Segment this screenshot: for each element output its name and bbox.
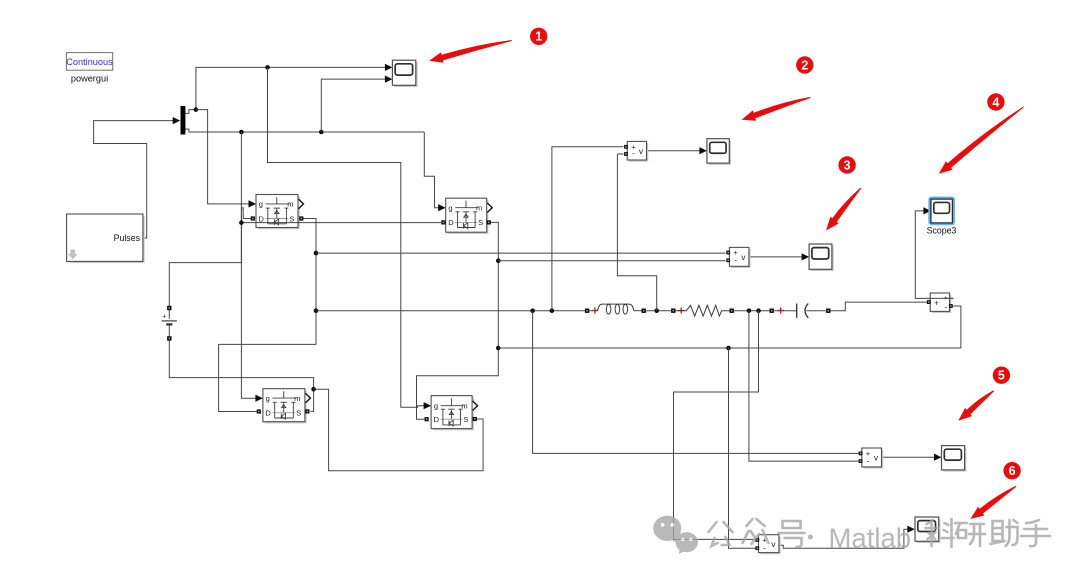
wire VM3 output to Scope3: [915, 211, 953, 299]
svg-text:-: -: [867, 455, 870, 465]
node pulse2 junction for MOSFET3 gate: [239, 130, 244, 135]
svg-text:3: 3: [844, 158, 851, 172]
watermark text 手: [1021, 520, 1050, 546]
voltage measurement VM5: [760, 536, 780, 554]
svg-text:S: S: [478, 218, 483, 227]
watermark text 公: [709, 522, 733, 546]
watermark text 号: [779, 521, 805, 547]
wire VM1 minus to inductor output: [617, 154, 656, 311]
wire Demux out1 stub: [185, 110, 196, 114]
node B tap to VM2 minus: [496, 259, 501, 264]
watermark text 科: [926, 519, 954, 547]
port M4 source: [473, 417, 477, 421]
svg-text:D: D: [265, 409, 271, 418]
wire VM5 plus from load tap: [674, 311, 759, 540]
svg-text:D: D: [258, 214, 264, 223]
wire VM3 output over block: [930, 297, 953, 299]
resistor R ports: [671, 309, 675, 313]
svg-text:-: -: [632, 148, 635, 158]
wire arrow into Scope1: [699, 147, 707, 154]
wire arrow into Scope6: [907, 526, 915, 533]
node pulse2 junction to scope: [319, 130, 324, 135]
wire pulse2 up to Scope bottom input: [321, 79, 391, 132]
node B tap to return rail: [496, 346, 501, 351]
watermark text 助: [991, 520, 1018, 546]
wire node B rail to VM2 minus: [498, 260, 725, 262]
svg-text:D: D: [448, 218, 454, 227]
mosfet M4 bottom-right: [433, 397, 474, 430]
svg-text:Continuous: Continuous: [66, 57, 113, 67]
svg-text:1: 1: [535, 30, 542, 44]
watermark wechat icon: [653, 516, 698, 554]
annotation arrow 1: [429, 40, 512, 63]
wire load rail segment A to inductor: [316, 310, 585, 312]
svg-text:Scope3: Scope3: [927, 226, 957, 236]
port M4 drain: [425, 417, 429, 421]
node pulse1 junction on top wire: [265, 65, 270, 70]
svg-text:4: 4: [992, 95, 999, 109]
inductor L coil: [589, 310, 597, 312]
label R plus: [678, 307, 684, 313]
svg-text:D: D: [434, 415, 440, 424]
annotation arrow 2: [742, 97, 811, 121]
annotation circle 3: [838, 156, 855, 173]
mosfet M1 top-left: [258, 196, 300, 229]
wire VM1 output to Scope1: [647, 150, 706, 152]
watermark text 研: [955, 523, 985, 546]
wire VM1 plus down to node A rail: [552, 147, 624, 311]
wire VM2 output to Scope2: [749, 256, 808, 258]
wire arrow into Scope3: [923, 207, 931, 214]
wire junction arrow into Demux: [173, 117, 181, 124]
svg-text:g: g: [448, 204, 452, 213]
annotation arrow 5: [958, 390, 994, 420]
port M1 drain: [251, 216, 255, 220]
annotation arrow 3: [826, 188, 861, 231]
node load rail tap VM4 minus: [756, 308, 761, 313]
node pulse1 junction at demux out1: [194, 107, 199, 112]
port M1 source: [299, 216, 303, 220]
capacitor C ports: [770, 309, 774, 313]
wire pulse1 up to Scope top input: [196, 67, 391, 109]
wire arrow into Scope5: [934, 454, 942, 461]
wire VM4 minus from load tap: [749, 311, 860, 461]
svg-text:6: 6: [1009, 464, 1016, 478]
wire arrow into Scope2: [802, 253, 810, 260]
svg-text:v: v: [741, 252, 746, 262]
port M2 drain: [441, 220, 445, 224]
node A tap to load rail: [314, 308, 319, 313]
node load rail tap VM1 minus: [654, 308, 659, 313]
wire Demux out2 stub: [185, 129, 424, 132]
wire pulse1 branch to MOSFET4 gate: [268, 67, 430, 407]
wire pulse1 branch to MOSFET1 gate: [196, 110, 255, 204]
annotation circle 1: [530, 28, 547, 45]
node load rail tap VM1 plus: [550, 308, 555, 313]
wire MOSFET2 source down: [417, 222, 499, 419]
wire arrow into Scope in1: [385, 64, 393, 71]
wire VM5 output to Scope6: [779, 529, 914, 548]
svg-text:5: 5: [998, 369, 1005, 383]
wire pulse2 down to MOSFET3 gate: [241, 132, 261, 398]
annotation arrow 6: [970, 486, 1016, 519]
port M3 source: [305, 409, 309, 413]
wire resistor to capacitor segment: [734, 310, 770, 312]
wire MOSFET1 source to node A: [219, 219, 316, 412]
node return rail tap VM5 minus: [726, 346, 731, 351]
wire VM4 output to Scope5: [882, 456, 941, 458]
wire Pulses output to Demux input: [94, 121, 174, 238]
wire battery plus up to DC rail: [169, 208, 250, 306]
wire arrow into Scope in2: [385, 76, 393, 83]
svg-text:S: S: [296, 409, 301, 418]
port M3 drain: [257, 409, 261, 413]
wire VM4 plus from node A: [533, 311, 860, 454]
wire battery minus to MOSFET3 source: [169, 340, 313, 411]
capacitor C plates: [774, 310, 797, 312]
annotation circle 6: [1003, 462, 1020, 479]
wire VM3 minus down to return rail: [951, 306, 961, 348]
wire DC positive rail to MOSFET2 drain: [241, 222, 441, 224]
wire node A rail to VM2 plus: [316, 252, 726, 254]
svg-text:S: S: [289, 214, 294, 223]
svg-text:g: g: [434, 402, 438, 411]
svg-text:-: -: [763, 542, 766, 552]
svg-text:g: g: [259, 200, 263, 209]
label C plus: [778, 307, 784, 313]
svg-text:-: -: [944, 301, 947, 311]
node negative rail junction: [311, 387, 316, 392]
wire return rail: [498, 347, 961, 349]
scope Scope3 selected: [928, 197, 955, 226]
svg-text:powergui: powergui: [71, 74, 108, 84]
label L plus: [592, 307, 598, 313]
wire pulse2 to MOSFET2 gate: [424, 132, 444, 208]
voltage measurement VM1: [629, 143, 648, 162]
watermark text 众: [743, 519, 769, 544]
inductor L ports: [585, 309, 589, 313]
watermark middle dot: [808, 535, 813, 540]
scope Scope6: [917, 519, 941, 543]
scope Scope1 (inductor voltage): [709, 140, 731, 164]
voltage measurement VM2: [731, 249, 751, 268]
annotation circle 5: [993, 367, 1010, 384]
annotation circle 2: [796, 56, 813, 73]
node DC rail junction: [239, 220, 244, 225]
voltage measurement VM4: [864, 450, 884, 469]
svg-text:S: S: [463, 415, 468, 424]
node load rail tap VM5 plus: [747, 308, 752, 313]
wire inductor to resistor segment: [646, 310, 671, 312]
demux: [181, 106, 186, 135]
scope Scope5: [943, 447, 966, 471]
scope Scope (pulses): [394, 62, 417, 87]
mosfet M3 bottom-left: [265, 390, 307, 423]
port M2 source: [487, 220, 491, 224]
svg-text:Matlab: Matlab: [829, 523, 912, 554]
wire VM5 minus from return rail: [729, 348, 757, 548]
node A tap to measurement rail: [314, 251, 319, 256]
mosfet M2 top-right: [447, 200, 488, 234]
wire negative rail to MOSFET4 source: [314, 389, 484, 471]
svg-text:-: -: [734, 255, 737, 265]
node load rail tap VM4 plus: [530, 308, 535, 313]
voltage measurement VM3: [932, 295, 951, 313]
wire arrow into MOSFET1 gate: [249, 200, 257, 207]
annotation circle 4: [987, 93, 1004, 110]
powergui block: [66, 53, 112, 71]
annotation arrow 4: [939, 107, 1024, 174]
svg-text:Pulses: Pulses: [114, 233, 141, 243]
wire arrow into MOSFET3 gate: [255, 395, 263, 402]
wire arrow into MOSFET2 gate: [438, 204, 446, 211]
svg-text:v: v: [771, 539, 776, 549]
svg-text:g: g: [266, 394, 270, 403]
subsystem Pulses: [68, 216, 144, 263]
wire capacitor to VM3 plus: [830, 302, 927, 311]
wire arrow into MOSFET4 gate: [424, 402, 432, 409]
resistor R zigzag: [676, 305, 730, 316]
svg-text:2: 2: [801, 58, 808, 72]
svg-text:+: +: [162, 314, 166, 321]
DC voltage source battery: [167, 306, 171, 310]
scope Scope2 (load voltage): [811, 246, 834, 271]
svg-text:+: +: [934, 299, 939, 308]
